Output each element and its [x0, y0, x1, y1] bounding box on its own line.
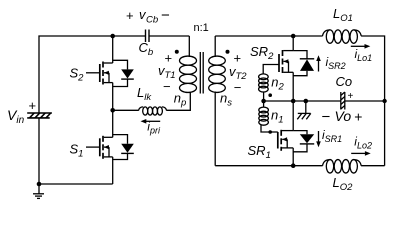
svg-text:iLo2: iLo2	[354, 134, 372, 150]
body diode of SR2	[293, 51, 314, 76]
svg-text:Co: Co	[336, 74, 353, 89]
label - Vo +	[322, 108, 363, 125]
dot n2 polarity	[268, 93, 272, 97]
svg-text:ns: ns	[220, 91, 232, 109]
voltage source Vin	[27, 113, 52, 118]
svg-text:LO1: LO1	[333, 6, 353, 24]
arrow i_Lo1	[351, 44, 371, 49]
label + vCb -	[126, 7, 170, 26]
wire top rail cap to transformer	[149, 35, 189, 37]
svg-text:iSR1: iSR1	[322, 128, 342, 144]
arrow i_SR1	[316, 131, 321, 147]
svg-text:SR2: SR2	[250, 44, 274, 62]
wire secondary top rail	[215, 35, 322, 37]
transformer secondary winding ns	[209, 36, 226, 166]
svg-text:Cb: Cb	[146, 15, 158, 26]
node chassis stub	[304, 99, 309, 104]
arrow i_Lo2	[351, 151, 371, 156]
svg-text:+: +	[29, 98, 37, 113]
svg-text:Vin: Vin	[7, 107, 25, 126]
svg-text:S2: S2	[70, 66, 85, 84]
node SR junction	[291, 99, 296, 104]
node ground	[37, 182, 42, 187]
svg-text:SR1: SR1	[248, 143, 271, 161]
winding n1	[259, 101, 278, 132]
wire left rail bottom	[39, 118, 113, 184]
inductor Lo2	[323, 160, 362, 174]
arrow i_SR2	[316, 55, 321, 71]
capacitor Cb	[146, 30, 150, 43]
svg-text:S1: S1	[70, 142, 84, 160]
ground	[33, 184, 44, 198]
svg-text:n1: n1	[271, 108, 284, 126]
wire bottom rail secondary	[215, 165, 322, 167]
svg-text:LO2: LO2	[333, 175, 354, 193]
wire Lo2 to right rail	[361, 165, 385, 167]
wire Llk to primary	[166, 92, 190, 110]
arrow i_pri	[141, 119, 161, 124]
svg-text:+: +	[165, 51, 173, 66]
label + vT1 -	[158, 51, 176, 95]
transistor SR2	[279, 36, 293, 101]
capacitor Co	[341, 92, 345, 110]
label + vT2 -	[229, 51, 247, 96]
wire midpoint to Llk	[113, 109, 139, 111]
transistor SR1	[278, 101, 293, 166]
wire left rail top	[39, 36, 146, 113]
svg-text:n2: n2	[271, 75, 284, 93]
dot n1 polarity	[268, 130, 272, 134]
svg-text:n:1: n:1	[194, 22, 209, 34]
node SR1 source on bottom rail	[291, 163, 296, 168]
svg-text:−: −	[322, 108, 331, 125]
svg-text:+: +	[354, 108, 362, 124]
svg-text:Vo: Vo	[335, 108, 352, 124]
body diode of SR1	[293, 131, 314, 152]
svg-text:iSR2: iSR2	[326, 55, 346, 71]
svg-text:iLo1: iLo1	[355, 47, 373, 63]
svg-text:ipri: ipri	[147, 120, 161, 136]
inductor Llk	[139, 107, 167, 115]
transistor S1	[86, 110, 113, 184]
dot primary polarity	[175, 50, 179, 54]
svg-text:−: −	[163, 79, 171, 94]
inductor Lo1	[323, 30, 362, 44]
body diode of S1	[113, 135, 134, 160]
transformer core	[200, 52, 203, 94]
node S2 drain on top rail	[110, 34, 115, 39]
svg-text:−: −	[234, 80, 242, 95]
chassis ground	[297, 101, 311, 119]
svg-text:+: +	[126, 8, 134, 23]
svg-text:Cb: Cb	[139, 40, 154, 58]
node midpoint S1/S2	[110, 108, 115, 113]
svg-text:np: np	[174, 91, 187, 109]
svg-text:−: −	[161, 7, 170, 24]
wire output midline	[264, 100, 341, 102]
node SR2 drain	[291, 34, 296, 39]
node n1 n2 midpoint	[261, 99, 266, 104]
wire Lo1 to right rail	[361, 36, 385, 166]
svg-text:Llk: Llk	[137, 85, 152, 103]
transistor S2	[86, 36, 113, 110]
winding n2	[259, 65, 279, 102]
transformer primary winding np	[180, 36, 197, 92]
node right rail mid	[382, 99, 386, 103]
dot secondary polarity	[226, 50, 230, 54]
body diode of S2	[113, 60, 134, 86]
svg-text:+: +	[348, 91, 354, 102]
